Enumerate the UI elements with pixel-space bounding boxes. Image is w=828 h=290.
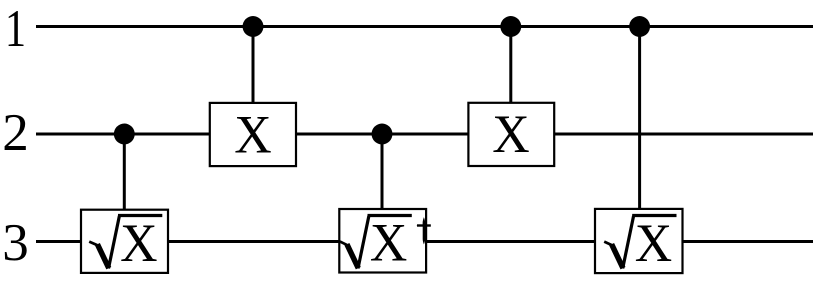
- wire 1: [36, 25, 813, 28]
- gate box X 2 on wire 2: [468, 103, 554, 166]
- vertical wire control1 to sqrtX gate 2 (crosses wire 2): [638, 27, 641, 211]
- svg-text:2: 2: [2, 104, 29, 162]
- dagger superscript of sqrt(X)-dagger gate: [416, 217, 431, 244]
- gate box sqrt(X) 1 on wire 3: [81, 210, 168, 273]
- vertical wire control2 to sqrtX gate 1: [123, 134, 126, 211]
- svg-text:X: X: [234, 105, 271, 164]
- wire 3: [36, 240, 813, 243]
- gate box sqrt(X) 2 on wire 3: [595, 209, 683, 273]
- svg-text:X: X: [120, 214, 157, 273]
- gate box sqrt(X)-dagger on wire 3: [339, 209, 426, 273]
- control dot on wire 1 (gate CX 1): [243, 16, 264, 37]
- vertical wire control2 to sqrtX-dagger gate: [381, 134, 384, 210]
- control dot on wire 1 (gate CX 2): [500, 16, 521, 37]
- vertical wire control1 to X gate 1: [252, 27, 255, 104]
- svg-text:3: 3: [2, 214, 29, 272]
- svg-text:X: X: [492, 105, 529, 164]
- svg-text:X: X: [370, 214, 407, 273]
- control dot on wire 1 (gate CV 2): [629, 16, 650, 37]
- control dot on wire 2 (gate CV-dagger): [372, 124, 393, 145]
- control dot on wire 2 (gate CV 1): [114, 124, 135, 145]
- wire 2: [36, 133, 813, 136]
- svg-text:X: X: [635, 214, 672, 273]
- vertical wire control1 to X gate 2: [509, 27, 512, 104]
- gate box X 1 on wire 2: [210, 103, 296, 166]
- svg-text:1: 1: [5, 0, 26, 58]
